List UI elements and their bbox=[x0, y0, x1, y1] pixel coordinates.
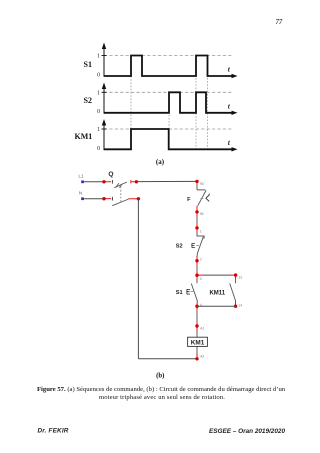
vertical dotted line at second rise x=196 bbox=[195, 56, 197, 150]
switch Q label bbox=[108, 171, 113, 178]
svg-text:KM11: KM11 bbox=[209, 291, 225, 297]
svg-text:0: 0 bbox=[97, 109, 100, 115]
dashed level-1 line KM1 bbox=[104, 128, 232, 130]
KM1 trace label bbox=[75, 132, 93, 141]
node A1 dot bbox=[195, 324, 204, 330]
footer author bbox=[38, 427, 69, 434]
dashed level-1 line S2 bbox=[104, 91, 232, 93]
label F bbox=[187, 197, 191, 203]
svg-text:Q: Q bbox=[108, 171, 113, 178]
svg-text:77: 77 bbox=[276, 19, 283, 26]
node dot L1-Q bbox=[102, 180, 112, 184]
wire N to Q bbox=[84, 198, 103, 200]
S2 trace label bbox=[84, 96, 92, 105]
KM1 signal waveform bbox=[104, 129, 233, 149]
node L1 terminal bbox=[78, 174, 84, 184]
S2 axis labels 1 and 0 bbox=[97, 90, 100, 115]
node N terminal bbox=[79, 191, 84, 201]
svg-text:ESGEE – Oran 2019/2020: ESGEE – Oran 2019/2020 bbox=[209, 428, 285, 435]
wire coil to A2 bbox=[196, 346, 198, 358]
svg-text:A1: A1 bbox=[200, 327, 204, 331]
svg-text:3: 3 bbox=[200, 277, 202, 281]
svg-text:S2: S2 bbox=[176, 244, 183, 250]
S1 time axis arrow bbox=[228, 66, 238, 79]
S1 vertical axis bbox=[102, 43, 107, 77]
S2 signal waveform bbox=[104, 92, 233, 113]
wire bottom return bbox=[138, 358, 197, 360]
node 95 junction dot bbox=[195, 180, 203, 186]
KM1 time axis arrow bbox=[228, 139, 238, 152]
svg-text:(a): (a) bbox=[156, 158, 165, 166]
svg-text:Dr. FEKIR: Dr. FEKIR bbox=[38, 427, 69, 434]
svg-text:KM1: KM1 bbox=[191, 340, 205, 347]
svg-text:95: 95 bbox=[200, 182, 204, 186]
thermal contact F (NC) bbox=[197, 190, 209, 206]
svg-text:t: t bbox=[228, 139, 231, 147]
footer institution bbox=[209, 428, 285, 435]
S2 time axis arrow bbox=[228, 103, 238, 116]
S2 actuator E bbox=[192, 243, 199, 247]
svg-text:S1: S1 bbox=[176, 290, 183, 296]
wire node2 to node3 bbox=[196, 261, 198, 276]
wire 96 to node 1 bbox=[196, 212, 198, 228]
label KM11 bbox=[209, 291, 225, 297]
pushbutton S2 (NC) bbox=[197, 228, 205, 253]
node A2 dot bbox=[195, 355, 204, 361]
wire branch to KM11 bbox=[197, 274, 236, 276]
node dot N-Q bbox=[102, 197, 112, 201]
svg-text:A2: A2 bbox=[200, 355, 204, 359]
wire 95 to F contact bbox=[196, 181, 198, 190]
KM1 axis labels 1 and 0 bbox=[97, 127, 100, 152]
node 13 dot bbox=[234, 273, 242, 279]
page number 77 bbox=[276, 19, 283, 26]
wire left rail bbox=[137, 199, 139, 359]
svg-text:L1: L1 bbox=[78, 174, 84, 180]
contactor coil KM1 bbox=[188, 337, 208, 347]
node 3 junction dot bbox=[195, 274, 202, 281]
label S1 bbox=[176, 290, 183, 296]
svg-text:1: 1 bbox=[97, 54, 100, 60]
label (b) bbox=[156, 372, 164, 379]
label S2 bbox=[176, 244, 183, 250]
switch Q pole 1 blade bbox=[114, 182, 127, 188]
svg-text:S2: S2 bbox=[84, 96, 92, 105]
figure caption line 2 bbox=[99, 394, 225, 401]
svg-text:S1: S1 bbox=[84, 60, 92, 69]
wire L1 to Q bbox=[84, 181, 103, 183]
svg-text:13: 13 bbox=[238, 276, 242, 280]
svg-text:1: 1 bbox=[200, 230, 202, 234]
switch Q pole 2 blade bbox=[112, 199, 128, 206]
svg-text:F: F bbox=[187, 197, 191, 203]
svg-text:14: 14 bbox=[238, 303, 242, 307]
figure caption line 1 bbox=[37, 386, 286, 393]
node 14 dot bbox=[234, 303, 242, 308]
wire Q to F column bbox=[136, 180, 197, 182]
node dot Q pole1 right bbox=[131, 180, 138, 184]
auxiliary contact KM11 (NO) bbox=[230, 275, 236, 306]
node 4 dot bbox=[195, 301, 202, 308]
svg-text:N: N bbox=[79, 191, 83, 197]
svg-text:t: t bbox=[228, 66, 231, 74]
dashed level-1 line S1 bbox=[104, 55, 232, 57]
svg-text:(b): (b) bbox=[156, 372, 164, 379]
svg-text:0: 0 bbox=[97, 146, 100, 152]
wire A1 to coil bbox=[196, 326, 198, 337]
vertical dotted line at S2 first rise x=169 bbox=[168, 92, 170, 149]
node 1 dot bbox=[195, 226, 202, 233]
svg-text:Figure 57. (a) Séquences de co: Figure 57. (a) Séquences de commande, (b… bbox=[37, 386, 286, 393]
node 96 dot bbox=[195, 206, 203, 216]
S1 signal waveform bbox=[104, 56, 233, 77]
label (a) bbox=[156, 158, 165, 166]
svg-text:KM1: KM1 bbox=[75, 132, 93, 141]
svg-text:96: 96 bbox=[200, 212, 204, 216]
node 2 dot bbox=[195, 253, 202, 262]
svg-text:0: 0 bbox=[97, 72, 100, 78]
S2 vertical axis bbox=[102, 83, 107, 114]
vertical dotted line at S1 first rise x=131 bbox=[130, 76, 132, 129]
switch Q mechanical link dashed bbox=[120, 186, 122, 201]
wire node4 to A1 bbox=[196, 306, 198, 326]
S1 axis labels 1 and 0 bbox=[97, 54, 100, 79]
wire KM11 branch bottom connector bbox=[197, 305, 236, 307]
S1 actuator E bbox=[187, 289, 193, 294]
svg-text:1: 1 bbox=[97, 90, 100, 96]
svg-text:t: t bbox=[228, 103, 231, 111]
svg-text:2: 2 bbox=[200, 257, 202, 261]
vertical dotted line at second fall x=207.5 bbox=[207, 56, 209, 150]
KM1 vertical axis bbox=[102, 119, 107, 150]
svg-text:moteur triphasé avec un seul s: moteur triphasé avec un seul sens de rot… bbox=[99, 394, 225, 401]
pushbutton S1 (NO) bbox=[191, 275, 197, 301]
node dot Q pole2 right bbox=[128, 197, 140, 200]
S1 trace label bbox=[84, 60, 92, 69]
svg-text:1: 1 bbox=[97, 127, 100, 133]
